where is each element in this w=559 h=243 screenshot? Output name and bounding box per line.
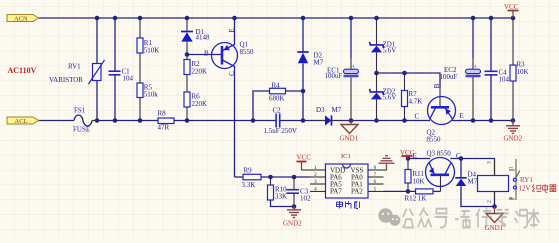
svg-text:E: E bbox=[228, 28, 236, 32]
wire Q1 emitter to top rail bbox=[234, 18, 236, 45]
svg-text:4148: 4148 bbox=[196, 34, 211, 42]
resistor R7 4.7K bbox=[402, 90, 423, 107]
svg-text:C2: C2 bbox=[273, 107, 282, 115]
svg-text:ACL: ACL bbox=[15, 118, 28, 125]
svg-text:10K: 10K bbox=[517, 68, 529, 76]
wire IC pin5 row to R12 bbox=[384, 190, 416, 192]
svg-text:4: 4 bbox=[509, 197, 515, 200]
transistor Q3 8550 bbox=[413, 150, 462, 187]
resistor R4 680K bbox=[269, 82, 286, 103]
junction dots top rail bbox=[95, 16, 516, 21]
svg-text:1: 1 bbox=[509, 166, 515, 169]
resistor R2 bbox=[184, 60, 207, 76]
electrolytic capacitor EC1 100uF bbox=[325, 63, 359, 80]
wire Q3 emitter row VCC to circle bbox=[408, 158, 431, 160]
zener diode ZD1 5.6V bbox=[370, 41, 397, 55]
svg-text:E: E bbox=[460, 112, 464, 120]
svg-text:3.3K: 3.3K bbox=[242, 181, 256, 189]
svg-text:C: C bbox=[228, 71, 236, 76]
diode D4 M7 bbox=[455, 171, 477, 187]
wire IC pin1 from VCC bbox=[302, 169, 326, 171]
svg-text:R9: R9 bbox=[244, 167, 253, 175]
relay RY1 switch contacts bbox=[509, 159, 520, 200]
svg-text:1.5uF 250V: 1.5uF 250V bbox=[264, 127, 297, 135]
power VCC top right bbox=[504, 3, 519, 18]
ground earth at IC pin8 bbox=[379, 156, 395, 170]
svg-text:5: 5 bbox=[374, 186, 377, 192]
svg-text:5.6V: 5.6V bbox=[383, 47, 397, 55]
IC1 pin stubs and numbers bbox=[310, 170, 387, 191]
capacitor C4 104 bbox=[485, 69, 510, 84]
wire Q1 base from node B bbox=[187, 54, 221, 56]
electrolytic capacitor EC2 100uF bbox=[440, 63, 481, 81]
svg-text:C: C bbox=[415, 113, 420, 121]
wire relay coil bottom lead bbox=[494, 192, 496, 207]
label 单片机 MCU bbox=[337, 201, 360, 209]
svg-text:M7: M7 bbox=[468, 178, 478, 186]
resistor R8 47R bbox=[158, 110, 175, 132]
wire C4 column bbox=[490, 18, 492, 71]
svg-text:D3: D3 bbox=[316, 106, 325, 114]
resistor R12 1K bbox=[405, 189, 434, 203]
svg-text:M7: M7 bbox=[332, 106, 342, 114]
diode D3 M7 bbox=[316, 106, 342, 126]
fuse FS1 bbox=[73, 107, 97, 134]
svg-text:B: B bbox=[433, 83, 441, 88]
wire R4 right lead bbox=[286, 90, 304, 92]
svg-text:10K: 10K bbox=[413, 178, 425, 186]
pin leads (black) bbox=[140, 18, 513, 207]
svg-text:IC1: IC1 bbox=[341, 153, 351, 160]
wire EC1 column bbox=[350, 18, 352, 58]
wire Q1 collector down to R9 row bbox=[234, 66, 236, 177]
svg-text:104: 104 bbox=[123, 75, 134, 83]
svg-text:220K: 220K bbox=[192, 68, 208, 76]
zener diode ZD2 5.6V bbox=[370, 88, 397, 102]
svg-text:Q3 8550: Q3 8550 bbox=[427, 150, 452, 158]
svg-text:PA2: PA2 bbox=[351, 187, 363, 195]
diode D1 4148 bbox=[181, 28, 210, 55]
ground GND2 earth below C3 bbox=[287, 207, 301, 218]
label RY1 12V relay bbox=[519, 176, 557, 193]
capacitor C2 1.5uF 250V bbox=[264, 107, 297, 136]
wire D4 column bbox=[460, 159, 462, 178]
watermark text 公众号·硬件笔记本 bbox=[402, 207, 539, 227]
svg-text:RV1: RV1 bbox=[68, 63, 81, 71]
svg-text:VARISTOR: VARISTOR bbox=[49, 76, 83, 84]
svg-text:3: 3 bbox=[487, 161, 493, 164]
node B junction bbox=[185, 52, 190, 57]
svg-text:510k: 510k bbox=[144, 91, 159, 99]
wire C1 column bbox=[114, 18, 116, 71]
relay RY1 coil bbox=[478, 159, 509, 204]
capacitor C3 102 bbox=[287, 188, 312, 203]
junction dots other nodes bbox=[268, 71, 497, 209]
svg-text:104: 104 bbox=[499, 76, 510, 84]
wire top rail ACN to VCC bbox=[39, 17, 514, 19]
wire R12 to Q3 base bbox=[433, 190, 441, 192]
power VCC at Q3 emitter bbox=[400, 149, 415, 159]
resistor R5 bbox=[137, 83, 158, 99]
svg-text:GND2: GND2 bbox=[504, 135, 523, 143]
wire zener junction to Q2 base bbox=[377, 73, 441, 88]
svg-text:102: 102 bbox=[300, 195, 311, 203]
resistor R6 bbox=[184, 92, 207, 108]
svg-text:8: 8 bbox=[374, 165, 377, 171]
svg-text:VCC: VCC bbox=[504, 3, 519, 11]
svg-text:C: C bbox=[456, 152, 461, 160]
wire Q3 collector row to relay coil bbox=[451, 159, 495, 176]
svg-text:220K: 220K bbox=[192, 100, 208, 108]
ground GND1 at D3 node bbox=[340, 121, 359, 143]
resistor R1 bbox=[137, 38, 159, 55]
svg-text:5.6V: 5.6V bbox=[383, 94, 397, 102]
svg-text:8550: 8550 bbox=[240, 48, 255, 56]
svg-text:FUSE: FUSE bbox=[73, 126, 90, 134]
wire D4 bottom to GND1 node bbox=[461, 186, 495, 206]
transistor Q2 8550 bbox=[415, 83, 464, 143]
svg-text:GND1: GND1 bbox=[340, 135, 359, 143]
ground GND1 below relay bbox=[485, 207, 504, 233]
svg-text:GND2: GND2 bbox=[283, 220, 302, 228]
svg-text:3: 3 bbox=[314, 179, 317, 185]
svg-text:FS1: FS1 bbox=[74, 107, 86, 115]
wire R10 bottom to GND2 node bbox=[271, 200, 295, 207]
power VCC at IC pin1 bbox=[297, 154, 312, 171]
svg-text:+: + bbox=[352, 63, 356, 70]
svg-text:2: 2 bbox=[314, 172, 317, 178]
svg-text:12V: 12V bbox=[519, 185, 531, 193]
svg-text:6: 6 bbox=[374, 179, 377, 185]
svg-text:RY1: RY1 bbox=[520, 176, 533, 184]
resistor R9 3.3K bbox=[242, 167, 262, 190]
wire EC2 column bbox=[472, 18, 474, 58]
wire Q2 emitter to GND2 rail bbox=[452, 120, 513, 122]
wire RV1 column bbox=[96, 18, 98, 64]
svg-text:33K: 33K bbox=[275, 193, 287, 201]
wire R4 left lead down bbox=[253, 91, 270, 121]
junction dots middle rail bbox=[95, 118, 516, 123]
wire R9 row to IC pin2 bbox=[235, 176, 244, 178]
resistor R3 10K bbox=[510, 61, 529, 82]
wire middle rail left (ACL line) bbox=[38, 120, 75, 122]
svg-text:R8: R8 bbox=[158, 110, 167, 118]
wire middle rail D3 to Q2 collector bbox=[280, 120, 325, 122]
varistor RV1 bbox=[49, 60, 105, 84]
diode D2 M7 bbox=[297, 52, 323, 67]
resistor R11 10K bbox=[405, 170, 425, 186]
svg-text:ACN: ACN bbox=[14, 16, 28, 23]
svg-text:47R: 47R bbox=[158, 124, 170, 132]
svg-text:PA7: PA7 bbox=[330, 187, 342, 195]
svg-text:100uF: 100uF bbox=[325, 72, 343, 80]
port ACN bbox=[7, 15, 39, 23]
wire D2 column bbox=[302, 18, 304, 52]
svg-text:4.7K: 4.7K bbox=[409, 98, 423, 106]
watermark wechat icon bbox=[378, 208, 400, 226]
svg-text:R4: R4 bbox=[272, 82, 281, 90]
resistor R10 33K bbox=[268, 185, 288, 201]
svg-text:2: 2 bbox=[487, 200, 493, 203]
svg-text:510K: 510K bbox=[144, 47, 160, 55]
transistor Q1 8550 bbox=[204, 28, 254, 75]
svg-text:VCC: VCC bbox=[297, 154, 312, 162]
svg-text:E: E bbox=[413, 152, 417, 160]
svg-text:+: + bbox=[474, 63, 478, 70]
svg-text:M7: M7 bbox=[314, 59, 324, 67]
op-amp IC1 box (MCU 单片机) bbox=[326, 153, 369, 198]
svg-text:8550: 8550 bbox=[427, 136, 442, 144]
svg-text:GND1: GND1 bbox=[485, 224, 504, 232]
svg-text:AC110V: AC110V bbox=[8, 66, 37, 75]
port ACL bbox=[7, 117, 39, 125]
svg-text:4: 4 bbox=[314, 186, 317, 192]
svg-text:680K: 680K bbox=[269, 95, 285, 103]
svg-text:1: 1 bbox=[314, 165, 317, 171]
svg-text:B: B bbox=[204, 50, 209, 58]
svg-text:100uF: 100uF bbox=[440, 73, 458, 81]
ground GND2 right earth bbox=[506, 121, 520, 134]
svg-text:R12 1K: R12 1K bbox=[405, 195, 427, 203]
svg-text:7: 7 bbox=[374, 172, 377, 178]
capacitor C1 bbox=[109, 68, 134, 83]
